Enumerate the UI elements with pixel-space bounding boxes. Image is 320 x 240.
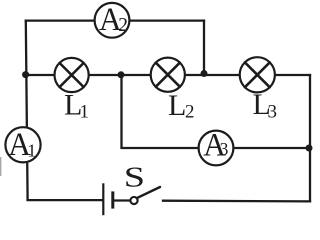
svg-text:3: 3	[268, 102, 278, 123]
svg-text:1: 1	[27, 141, 36, 161]
svg-text:L: L	[168, 89, 186, 122]
svg-text:S: S	[124, 162, 145, 194]
svg-text:2: 2	[118, 15, 128, 36]
svg-text:2: 2	[185, 102, 195, 123]
svg-text:3: 3	[220, 139, 229, 159]
svg-text:1: 1	[80, 102, 90, 123]
